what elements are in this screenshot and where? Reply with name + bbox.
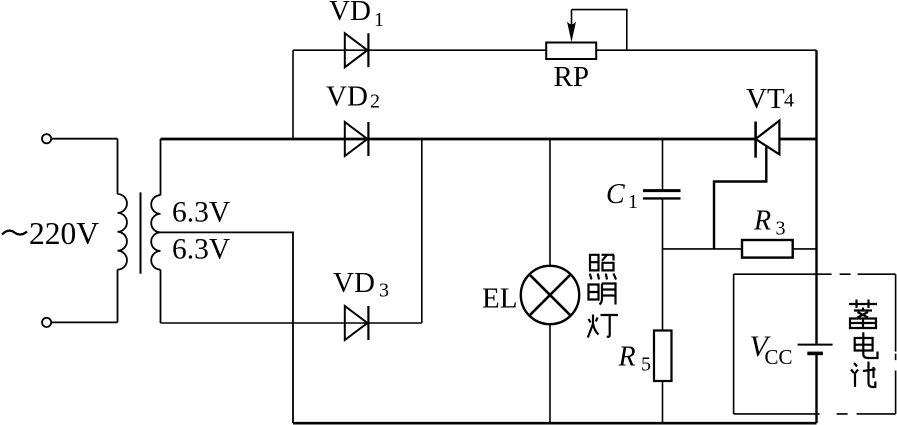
label chi (池) of 蓄电池 — [851, 362, 876, 388]
svg-text:1: 1 — [628, 191, 638, 213]
wire bottom bus — [293, 422, 817, 425]
svg-text:VD: VD — [333, 267, 375, 299]
svg-text:VD: VD — [329, 0, 371, 27]
label dian (电) of 蓄电池 — [855, 332, 878, 358]
label EL — [482, 283, 517, 315]
svg-text:EL: EL — [482, 283, 517, 315]
wire — [160, 139, 162, 195]
svg-text:R: R — [618, 342, 636, 373]
diode VD1 — [345, 33, 369, 67]
wire VD3 cathode vertical — [421, 139, 423, 323]
terminal top-left — [42, 134, 51, 143]
label ming (明) of 照明灯 — [589, 284, 616, 305]
wire node C1-R3 — [663, 248, 743, 250]
lamp EL — [521, 139, 579, 423]
label R3 — [753, 206, 786, 240]
svg-text:VD: VD — [326, 81, 368, 113]
svg-text:C: C — [606, 179, 625, 210]
label R5 — [618, 342, 652, 376]
svg-text:R: R — [753, 206, 771, 237]
potentiometer RP — [546, 10, 627, 59]
svg-text:6.3V: 6.3V — [172, 234, 230, 266]
label xu (蓄) of 蓄电池 — [849, 300, 877, 329]
tilde of 220V — [2, 231, 27, 235]
wire — [117, 139, 119, 194]
wire — [51, 138, 117, 140]
resistor R3 — [742, 240, 793, 258]
battery VCC plates — [798, 345, 833, 354]
label VD1 — [329, 0, 384, 31]
resistor R5 — [654, 331, 672, 382]
label ~220V — [29, 216, 99, 251]
svg-text:220V: 220V — [29, 216, 99, 251]
label VT4 — [746, 83, 794, 115]
svg-text:VT: VT — [746, 83, 785, 115]
label 6.3V upper — [172, 197, 230, 229]
svg-text:2: 2 — [370, 91, 380, 113]
svg-text:RP: RP — [554, 61, 589, 93]
svg-text:6.3V: 6.3V — [172, 197, 230, 229]
label deng (灯) of 照明灯 — [588, 315, 618, 338]
wire top bus — [161, 138, 817, 141]
wire — [662, 381, 664, 423]
svg-text:4: 4 — [784, 90, 794, 112]
svg-text:1: 1 — [374, 9, 384, 31]
transformer secondary winding — [151, 195, 160, 269]
svg-text:3: 3 — [379, 280, 389, 302]
wire — [51, 321, 117, 323]
wire VD1 branch — [293, 49, 817, 51]
battery enclosure dashed box — [734, 274, 896, 414]
svg-text:5: 5 — [641, 354, 651, 376]
transformer core — [140, 192, 142, 273]
wire — [160, 270, 162, 323]
label VCC — [750, 330, 793, 369]
label 6.3V lower — [172, 234, 230, 266]
wire — [117, 270, 119, 323]
svg-text:3: 3 — [776, 218, 786, 240]
wire — [793, 248, 817, 250]
label VD3 — [333, 267, 389, 302]
label zhao (照) of 照明灯 — [590, 255, 616, 280]
svg-text:CC: CC — [765, 345, 793, 369]
label VD2 — [326, 81, 380, 113]
thyristor VT4 — [714, 121, 779, 249]
terminal bottom-left — [42, 318, 51, 327]
wire VD3 branch — [161, 322, 422, 324]
wire center tap — [161, 232, 294, 423]
label RP — [554, 61, 589, 93]
diode VD2 — [345, 122, 369, 156]
diode VD3 — [345, 306, 369, 340]
wire VD1 branch left vertical — [292, 50, 294, 139]
transformer primary winding — [118, 194, 127, 270]
capacitor C1 — [643, 139, 681, 331]
label C1 — [606, 179, 638, 213]
wire right bus — [815, 50, 817, 423]
